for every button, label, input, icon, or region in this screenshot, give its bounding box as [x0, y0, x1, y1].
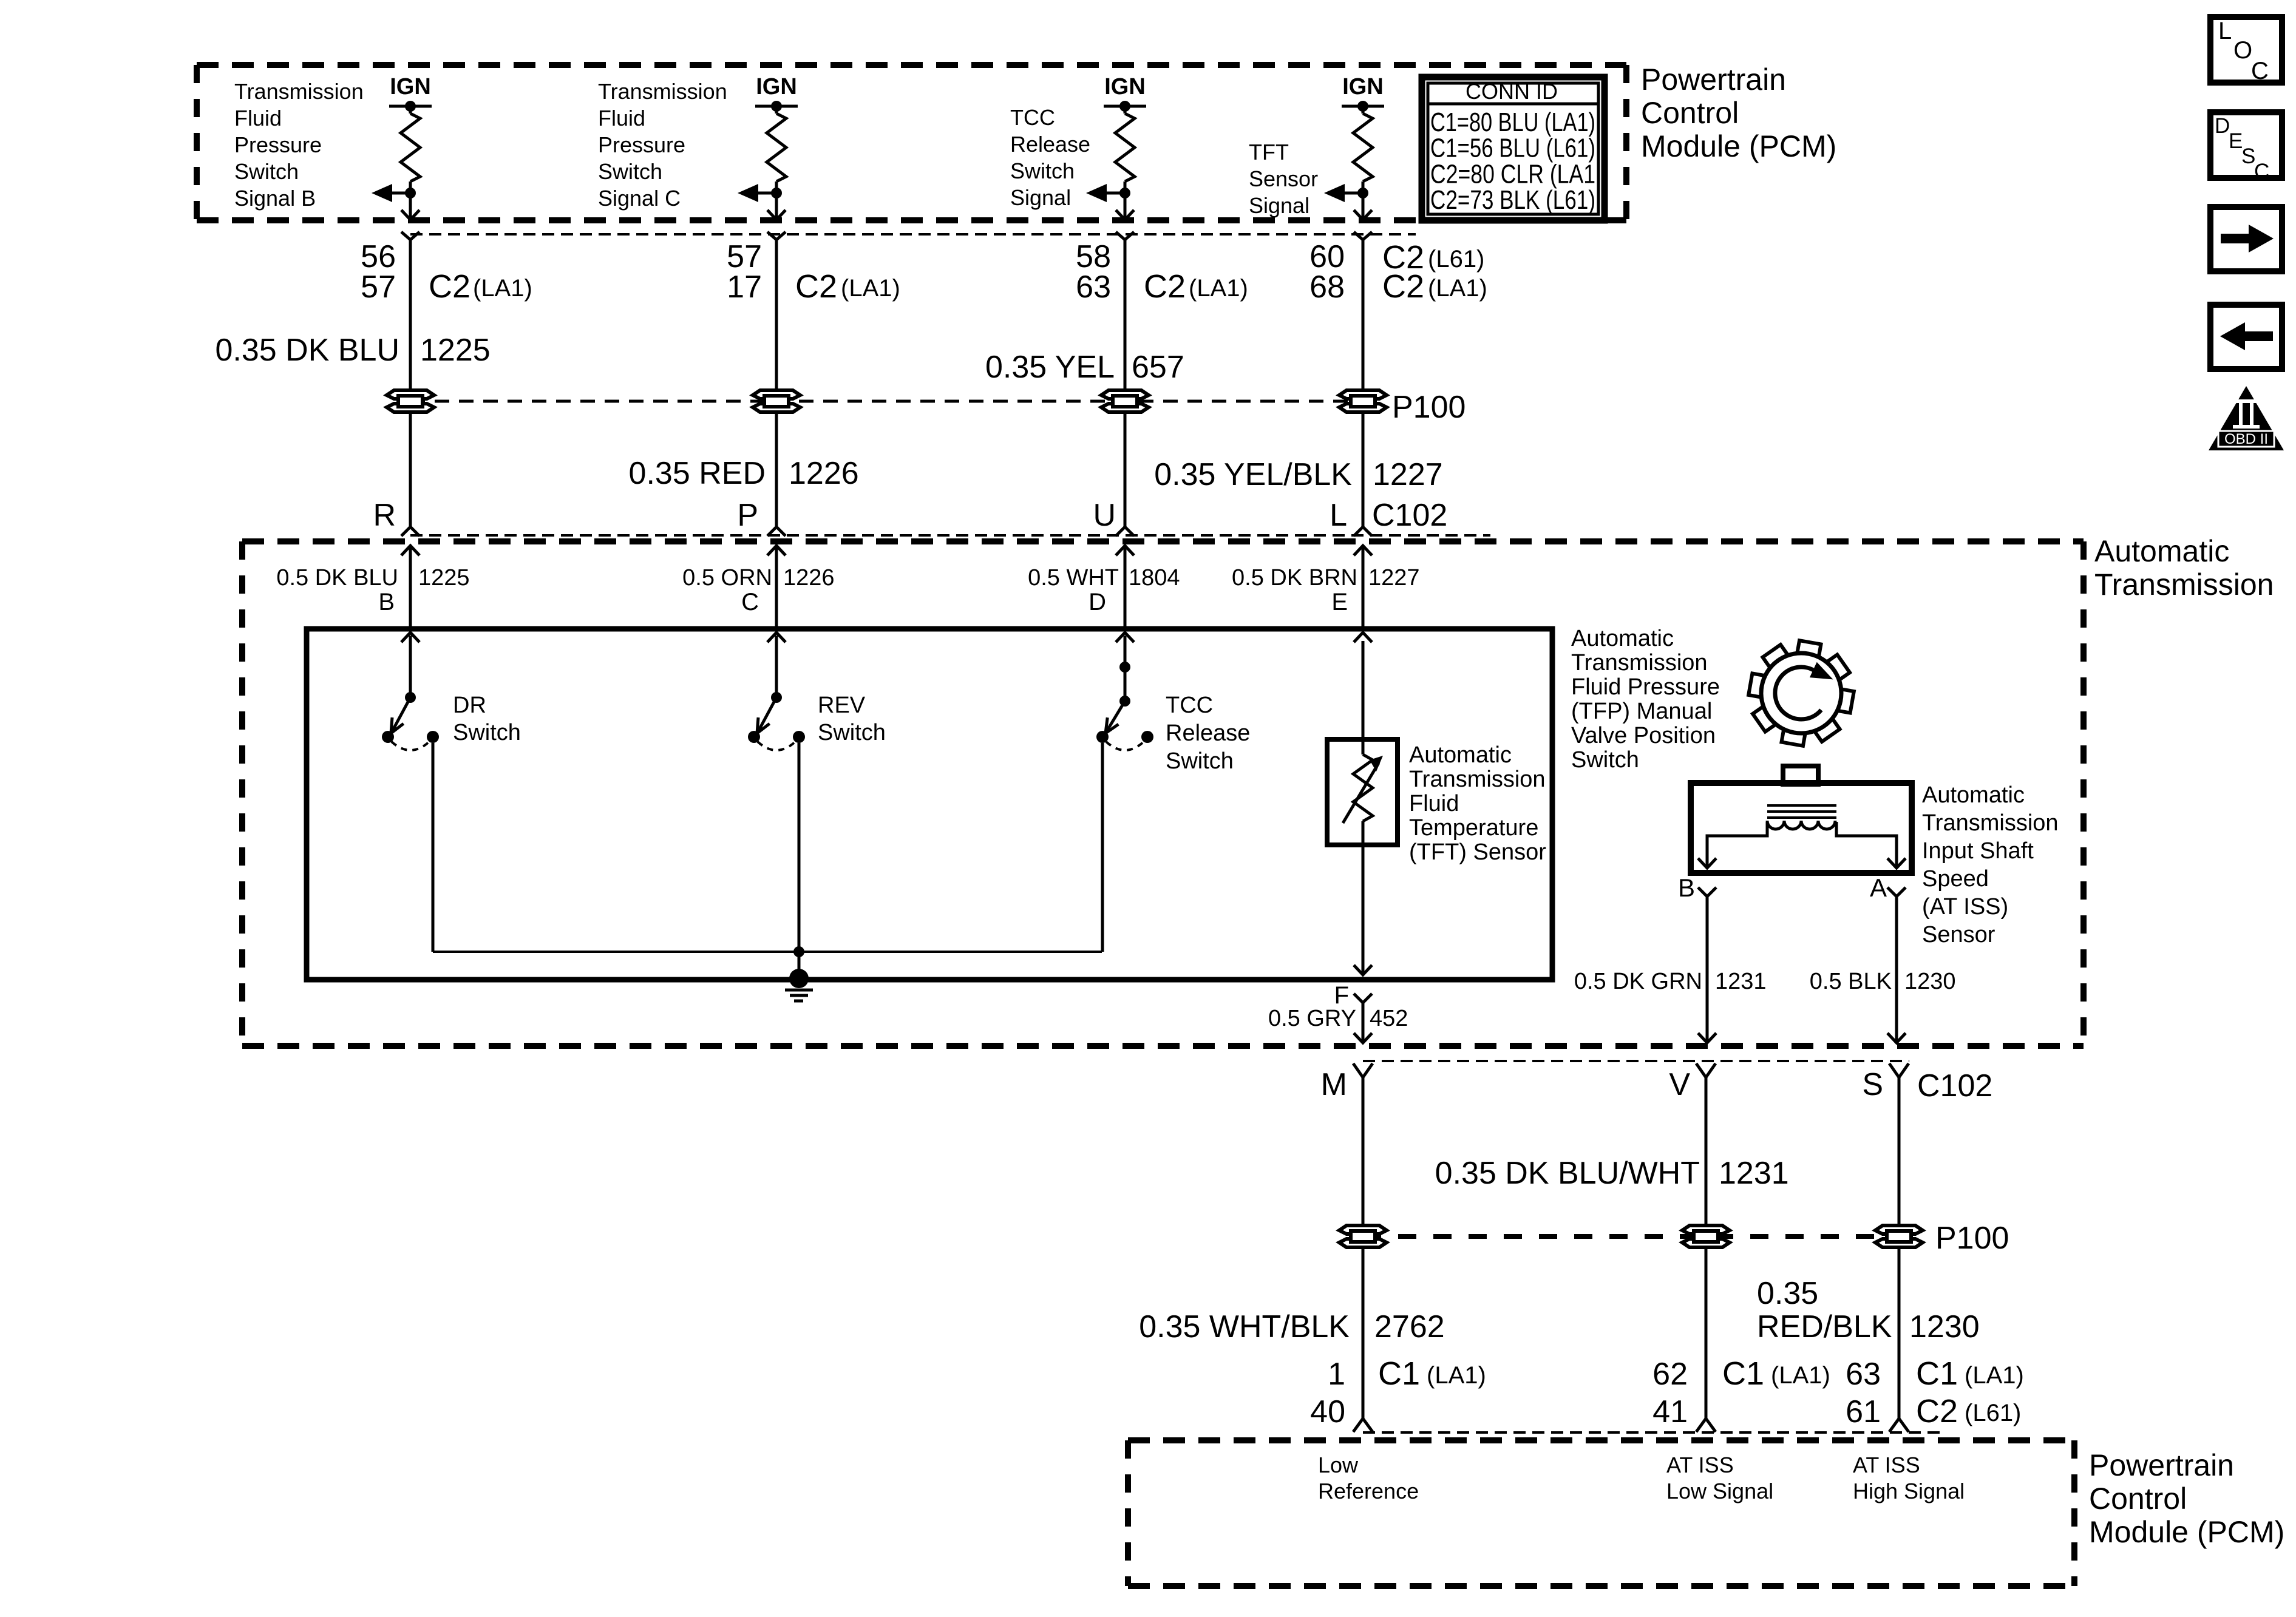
svg-text:Speed: Speed: [1922, 866, 1989, 892]
svg-text:1227: 1227: [1368, 565, 1420, 591]
svg-text:L: L: [1330, 498, 1347, 533]
svg-text:(LA1): (LA1): [1771, 1362, 1830, 1389]
svg-text:(LA1): (LA1): [1427, 1362, 1486, 1389]
svg-text:68: 68: [1309, 269, 1345, 305]
svg-text:C: C: [741, 589, 759, 615]
svg-text:R: R: [373, 498, 396, 533]
svg-text:(L61): (L61): [1428, 246, 1484, 273]
svg-text:1225: 1225: [420, 333, 491, 368]
svg-text:0.35 RED: 0.35 RED: [629, 456, 766, 491]
svg-text:P100: P100: [1935, 1221, 2009, 1256]
svg-text:0.5 WHT: 0.5 WHT: [1028, 565, 1119, 591]
svg-text:REV: REV: [818, 693, 866, 718]
svg-text:Temperature: Temperature: [1409, 815, 1538, 841]
svg-text:C2: C2: [1382, 268, 1424, 305]
svg-text:Switch: Switch: [598, 159, 662, 184]
svg-text:D: D: [1089, 589, 1106, 615]
svg-text:Input Shaft: Input Shaft: [1922, 838, 2034, 864]
svg-text:0.5 GRY: 0.5 GRY: [1268, 1006, 1356, 1031]
svg-text:C: C: [2251, 58, 2269, 84]
svg-text:0.5 DK BRN: 0.5 DK BRN: [1232, 565, 1357, 591]
svg-text:Release: Release: [1166, 720, 1250, 746]
svg-text:C2: C2: [429, 268, 470, 305]
svg-text:2762: 2762: [1374, 1309, 1445, 1344]
svg-text:S: S: [1862, 1067, 1883, 1102]
svg-text:Fluid: Fluid: [598, 106, 645, 131]
svg-text:0.35: 0.35: [1757, 1276, 1818, 1311]
svg-text:1226: 1226: [789, 456, 859, 491]
svg-text:Sensor: Sensor: [1249, 166, 1318, 191]
svg-text:IGN: IGN: [1104, 74, 1146, 100]
svg-text:P: P: [737, 498, 758, 533]
svg-text:M: M: [1321, 1067, 1347, 1102]
svg-text:41: 41: [1652, 1394, 1688, 1429]
svg-text:Fluid: Fluid: [234, 106, 282, 131]
svg-text:O: O: [2233, 37, 2252, 64]
svg-text:Signal B: Signal B: [234, 186, 316, 211]
svg-text:Automatic: Automatic: [1922, 782, 2025, 808]
svg-text:452: 452: [1370, 1006, 1408, 1031]
svg-text:C102: C102: [1372, 498, 1447, 533]
svg-text:(AT ISS): (AT ISS): [1922, 894, 2008, 920]
svg-text:Low Signal: Low Signal: [1666, 1479, 1773, 1503]
svg-text:Switch: Switch: [1571, 747, 1639, 773]
svg-text:Automatic: Automatic: [1409, 742, 1512, 768]
svg-text:(LA1): (LA1): [1189, 275, 1248, 302]
svg-text:(LA1): (LA1): [473, 275, 532, 302]
svg-text:(LA1): (LA1): [1965, 1362, 2024, 1389]
svg-text:C2: C2: [1916, 1393, 1958, 1429]
svg-text:0.5 DK GRN: 0.5 DK GRN: [1574, 969, 1702, 994]
svg-text:C1=56 BLU (L61): C1=56 BLU (L61): [1430, 134, 1595, 163]
svg-text:Valve Position: Valve Position: [1571, 723, 1716, 748]
svg-text:0.5 DK BLU: 0.5 DK BLU: [276, 565, 398, 591]
svg-text:Automatic: Automatic: [1571, 626, 1674, 651]
svg-text:L: L: [2218, 18, 2232, 44]
svg-text:Switch: Switch: [818, 720, 886, 745]
svg-text:TCC: TCC: [1166, 693, 1213, 718]
svg-text:1227: 1227: [1373, 457, 1443, 492]
svg-text:657: 657: [1132, 350, 1184, 385]
svg-text:0.35 YEL/BLK: 0.35 YEL/BLK: [1154, 457, 1352, 492]
svg-text:Control: Control: [1641, 96, 1739, 130]
svg-text:Release: Release: [1010, 132, 1090, 157]
svg-text:E: E: [2229, 129, 2243, 153]
svg-text:C102: C102: [1917, 1068, 1992, 1103]
svg-text:Powertrain: Powertrain: [1641, 63, 1786, 97]
svg-text:IGN: IGN: [390, 74, 431, 100]
svg-text:Switch: Switch: [453, 720, 521, 745]
svg-text:IGN: IGN: [756, 74, 797, 100]
svg-text:Low: Low: [1318, 1453, 1359, 1477]
svg-text:Automatic: Automatic: [2094, 534, 2229, 568]
svg-text:0.35 WHT/BLK: 0.35 WHT/BLK: [1139, 1309, 1350, 1344]
svg-text:Switch: Switch: [234, 159, 299, 184]
svg-text:F: F: [1334, 982, 1349, 1009]
svg-text:(L61): (L61): [1965, 1400, 2021, 1426]
svg-text:Sensor: Sensor: [1922, 922, 1995, 947]
svg-text:B: B: [1678, 873, 1695, 902]
svg-text:C: C: [2254, 160, 2269, 183]
svg-text:B: B: [378, 589, 395, 615]
svg-text:RED/BLK: RED/BLK: [1757, 1309, 1892, 1344]
svg-text:17: 17: [727, 269, 762, 305]
svg-text:63: 63: [1076, 269, 1111, 305]
svg-text:1: 1: [1328, 1357, 1345, 1392]
svg-text:40: 40: [1310, 1394, 1345, 1429]
svg-text:C1=80 BLU (LA1): C1=80 BLU (LA1): [1430, 107, 1595, 137]
svg-text:0.35 DK BLU: 0.35 DK BLU: [216, 333, 400, 368]
svg-text:AT ISS: AT ISS: [1666, 1453, 1734, 1477]
svg-text:TCC: TCC: [1010, 105, 1055, 130]
svg-text:1226: 1226: [783, 565, 835, 591]
svg-text:Pressure: Pressure: [598, 132, 685, 157]
svg-text:Signal C: Signal C: [598, 186, 681, 211]
svg-text:62: 62: [1652, 1357, 1688, 1392]
svg-text:TFT: TFT: [1249, 140, 1289, 164]
svg-text:Control: Control: [2089, 1482, 2187, 1516]
svg-text:Signal: Signal: [1249, 193, 1309, 218]
svg-text:Switch: Switch: [1166, 748, 1234, 774]
svg-text:Powertrain: Powertrain: [2089, 1448, 2234, 1482]
svg-text:E: E: [1331, 589, 1348, 615]
svg-text:Pressure: Pressure: [234, 132, 322, 157]
svg-text:0.5 ORN: 0.5 ORN: [682, 565, 772, 591]
svg-text:1225: 1225: [418, 565, 470, 591]
svg-text:Transmission: Transmission: [2094, 568, 2274, 602]
svg-text:U: U: [1093, 498, 1116, 533]
svg-text:Transmission: Transmission: [1922, 810, 2059, 836]
svg-text:Module (PCM): Module (PCM): [2089, 1515, 2284, 1549]
svg-text:1231: 1231: [1715, 969, 1767, 994]
svg-text:CONN ID: CONN ID: [1466, 79, 1558, 104]
svg-text:(LA1): (LA1): [1428, 275, 1487, 302]
svg-text:(LA1): (LA1): [841, 275, 900, 302]
svg-text:C2: C2: [1144, 268, 1186, 305]
svg-text:Fluid Pressure: Fluid Pressure: [1571, 674, 1720, 700]
svg-text:Signal: Signal: [1010, 185, 1071, 210]
svg-text:1230: 1230: [1904, 969, 1956, 994]
svg-text:63: 63: [1846, 1357, 1881, 1392]
svg-text:C1: C1: [1378, 1355, 1420, 1392]
svg-text:61: 61: [1846, 1394, 1881, 1429]
svg-text:IGN: IGN: [1342, 74, 1384, 100]
svg-text:1231: 1231: [1719, 1156, 1789, 1191]
svg-text:DR: DR: [453, 693, 486, 718]
svg-text:C1: C1: [1722, 1355, 1764, 1392]
svg-text:Transmission: Transmission: [1571, 650, 1708, 676]
svg-text:Reference: Reference: [1318, 1479, 1419, 1503]
svg-text:Transmission: Transmission: [598, 79, 727, 104]
svg-text:D: D: [2215, 114, 2230, 138]
svg-text:C2=73 BLK (L61): C2=73 BLK (L61): [1430, 185, 1595, 215]
svg-text:0.35 YEL: 0.35 YEL: [985, 350, 1115, 385]
svg-text:Transmission: Transmission: [234, 79, 364, 104]
svg-text:(TFP) Manual: (TFP) Manual: [1571, 699, 1712, 724]
svg-text:Fluid: Fluid: [1409, 791, 1459, 816]
svg-text:0.5 BLK: 0.5 BLK: [1810, 969, 1892, 994]
svg-text:C2=80 CLR (LA1: C2=80 CLR (LA1: [1430, 159, 1595, 189]
svg-text:Module (PCM): Module (PCM): [1641, 129, 1836, 163]
svg-text:A: A: [1870, 873, 1887, 902]
svg-text:OBD II: OBD II: [2224, 431, 2268, 447]
svg-text:0.35 DK BLU/WHT: 0.35 DK BLU/WHT: [1435, 1156, 1700, 1191]
svg-text:Transmission: Transmission: [1409, 767, 1546, 792]
svg-text:V: V: [1669, 1067, 1690, 1102]
svg-text:C1: C1: [1916, 1355, 1958, 1392]
svg-text:AT ISS: AT ISS: [1853, 1453, 1920, 1477]
svg-text:1804: 1804: [1129, 565, 1180, 591]
svg-text:Switch: Switch: [1010, 158, 1075, 183]
svg-text:P100: P100: [1392, 390, 1466, 425]
svg-text:57: 57: [361, 269, 396, 305]
svg-text:C2: C2: [795, 268, 837, 305]
svg-text:(TFT) Sensor: (TFT) Sensor: [1409, 839, 1546, 865]
svg-text:S: S: [2241, 144, 2255, 168]
svg-text:High Signal: High Signal: [1853, 1479, 1965, 1503]
svg-text:1230: 1230: [1909, 1309, 1980, 1344]
